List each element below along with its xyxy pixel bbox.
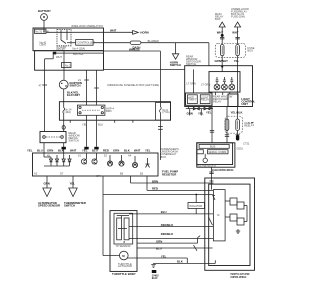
svg-text:SWITCH: SWITCH	[70, 84, 81, 88]
svg-text:WHT: WHT	[110, 29, 117, 33]
svg-text:YEL: YEL	[234, 59, 240, 63]
svg-text:C731: C731	[243, 142, 250, 146]
svg-text:(15A): (15A)	[40, 43, 46, 47]
svg-text:SWITCH: SWITCH	[170, 63, 181, 67]
svg-text:HORN: HORN	[140, 30, 148, 34]
svg-text:SPEED SENSOR: SPEED SENSOR	[38, 204, 60, 208]
svg-text:CONTROL MODULE: CONTROL MODULE	[230, 275, 246, 279]
svg-text:WHT: WHT	[70, 149, 77, 153]
svg-text:WHT: WHT	[217, 31, 224, 35]
svg-text:(7.5A): (7.5A)	[162, 110, 169, 114]
svg-text:No.2: No.2	[65, 63, 71, 67]
svg-text:GAUGE CONTROL MODULE: GAUGE CONTROL MODULE	[212, 168, 234, 172]
svg-text:MPI: MPI	[96, 174, 101, 178]
svg-text:IC: IC	[217, 213, 220, 217]
svg-text:GRN: GRN	[156, 239, 162, 243]
svg-text:BLK/YEL: BLK/YEL	[73, 52, 84, 56]
svg-text:CONTROLLER: CONTROLLER	[77, 41, 95, 45]
svg-text:UNDER-HOOD FUSE/RELAY BOX: UNDER-HOOD FUSE/RELAY BOX	[71, 24, 103, 28]
svg-text:RELAY: RELAY	[201, 98, 210, 102]
svg-text:ISOLATOR: ISOLATOR	[189, 204, 202, 208]
svg-text:WHT: WHT	[134, 149, 141, 153]
svg-text:RED: RED	[152, 187, 158, 191]
svg-text:SERIAL COMM: SERIAL COMM	[208, 150, 226, 154]
svg-text:SWITCH: SWITCH	[64, 204, 75, 208]
svg-text:BLU: BLU	[98, 123, 103, 127]
svg-text:ACTUATOR: ACTUATOR	[118, 264, 132, 268]
svg-text:GRN: GRN	[44, 182, 50, 186]
svg-text:YEL: YEL	[70, 182, 76, 186]
svg-text:BLU: BLU	[156, 247, 162, 251]
svg-text:ELD UNIT: ELD UNIT	[67, 93, 80, 97]
svg-text:No.4 (15A): No.4 (15A)	[73, 46, 86, 50]
svg-text:BRN: BRN	[152, 179, 158, 183]
svg-text:RED/BLK: RED/BLK	[161, 223, 173, 227]
svg-text:LT GRN: LT GRN	[201, 83, 210, 87]
svg-text:SWITCH: SWITCH	[69, 139, 79, 143]
svg-text:YEL: YEL	[206, 111, 212, 115]
svg-text:BUS: BUS	[210, 145, 216, 149]
svg-text:BLK: BLK	[124, 149, 130, 153]
svg-text:BOX: BOX	[215, 17, 221, 21]
svg-text:BOX: BOX	[248, 49, 254, 53]
svg-text:GRN: GRN	[47, 149, 53, 153]
svg-text:TP SENSOR: TP SENSOR	[116, 244, 131, 248]
svg-text:GRN: GRN	[187, 112, 193, 116]
svg-text:(10A): (10A)	[65, 110, 71, 114]
svg-text:GRN: GRN	[113, 149, 119, 153]
svg-text:BLU/RED: BLU/RED	[148, 39, 159, 43]
svg-text:G501: G501	[237, 146, 244, 150]
svg-text:RED/BLK: RED/BLK	[161, 232, 173, 236]
svg-text:YEL/BLK: YEL/BLK	[231, 111, 243, 115]
svg-text:BOX: BOX	[161, 155, 167, 159]
svg-text:YEL: YEL	[161, 255, 167, 259]
svg-text:A4: A4	[128, 153, 132, 157]
svg-text:WHT: WHT	[232, 31, 239, 35]
svg-text:RELAY: RELAY	[213, 99, 222, 103]
svg-text:BATTERY: BATTERY	[38, 9, 51, 13]
svg-text:YEL: YEL	[198, 112, 204, 116]
svg-text:RED: RED	[103, 149, 109, 153]
svg-text:THEFT: THEFT	[188, 98, 197, 102]
svg-text:UNDER-DASH FUSE/RELAY BOX (LE: UNDER-DASH FUSE/RELAY BOX (LEFT SIDE)	[107, 83, 159, 87]
svg-text:LT GRN: LT GRN	[187, 82, 196, 86]
svg-text:B6: B6	[120, 172, 124, 176]
svg-text:B2: B2	[140, 172, 144, 176]
svg-text:GRN/WHT: GRN/WHT	[215, 59, 229, 63]
svg-text:BLU: BLU	[37, 149, 43, 153]
svg-text:ELD: ELD	[152, 276, 158, 280]
svg-text:RESISTOR: RESISTOR	[162, 172, 176, 176]
svg-text:BLK: BLK	[177, 260, 183, 264]
svg-text:WHT: WHT	[129, 47, 136, 51]
svg-text:UNIT: UNIT	[241, 102, 248, 106]
svg-text:A2: A2	[34, 172, 38, 176]
svg-text:D7: D7	[60, 172, 64, 176]
svg-text:BLU: BLU	[161, 210, 167, 214]
svg-text:WHT: WHT	[56, 55, 62, 59]
svg-text:YEL: YEL	[27, 149, 33, 153]
svg-text:BRN: BRN	[106, 109, 112, 113]
svg-text:FUSE (50A): FUSE (50A)	[231, 15, 245, 19]
svg-text:THROTTLE BODY: THROTTLE BODY	[112, 272, 136, 276]
svg-text:YEL: YEL	[145, 149, 151, 153]
